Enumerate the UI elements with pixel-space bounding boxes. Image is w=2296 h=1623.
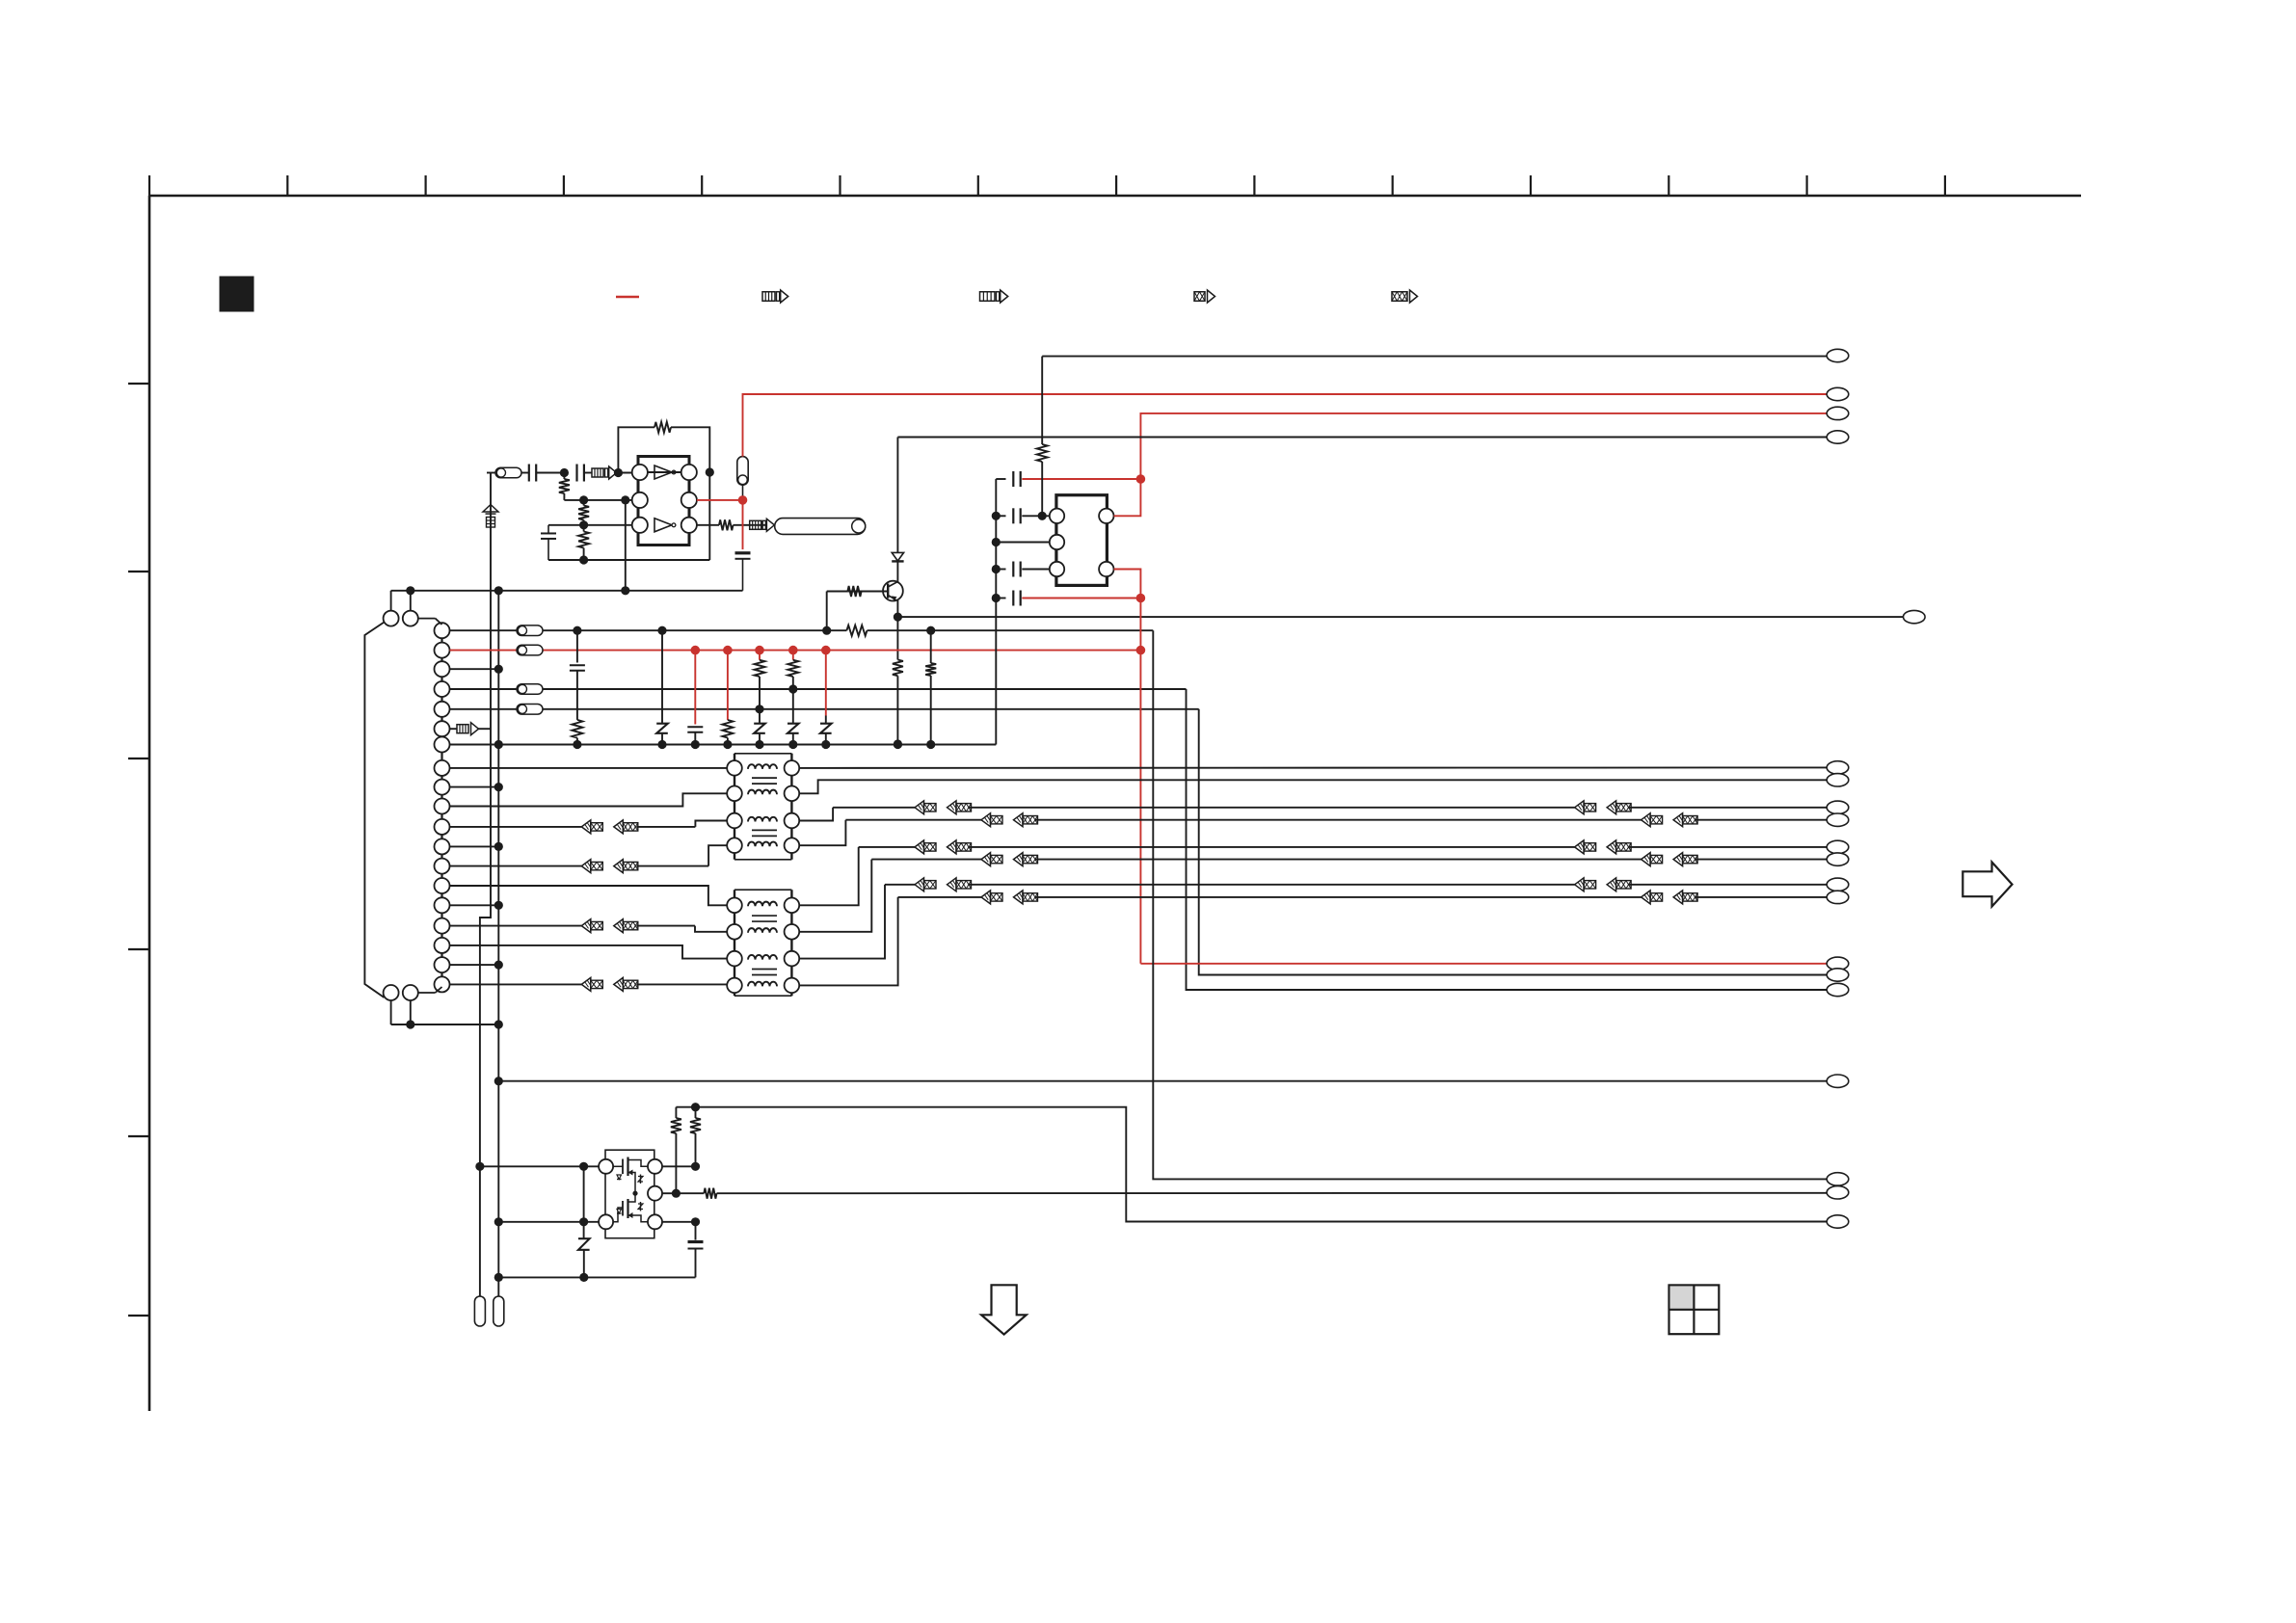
- signal arrows r6 right: [1642, 853, 1651, 866]
- connector CN1 pin chain: [441, 638, 442, 642]
- resistor R15: [675, 1107, 677, 1118]
- wire Q2 bottom row: [498, 1221, 599, 1223]
- inductor Z3: [583, 1166, 585, 1222]
- wire CN1-17 to T2 p3: [450, 945, 728, 959]
- wire feedback loop: [618, 427, 654, 472]
- wire CN1-16 to T2 p2: [450, 925, 582, 927]
- capacitor C7 shunt red: [694, 651, 696, 725]
- wire CN1-12 to bus: [450, 845, 499, 847]
- node feedback tap: [621, 495, 629, 504]
- wire CN1-9 to bus: [450, 786, 499, 788]
- resistor R17: [704, 1188, 716, 1199]
- wire red supply bus: [450, 650, 518, 652]
- node R15 bottom: [672, 1189, 681, 1198]
- signal arrows r7 right: [1575, 878, 1585, 891]
- wire bottom ground rail: [498, 1276, 695, 1278]
- delay line DL1: [775, 519, 866, 535]
- op-amp U1 amplifier B: [654, 519, 672, 532]
- wire T2 p1 to CN2 r5: [799, 847, 859, 905]
- node bus a: [406, 586, 414, 595]
- wire row CN1-5: [450, 708, 518, 710]
- wire T1 p1 to CN2 r1: [799, 766, 1827, 769]
- wire ground bus upper: [391, 590, 743, 592]
- node input junction: [560, 468, 569, 477]
- wire T2 p3 to CN2 r7: [799, 885, 885, 959]
- ferrite bead L1: [495, 467, 521, 478]
- bus arrow into U1: [592, 468, 603, 477]
- wire T1 p4 to CN2 r4: [799, 820, 845, 846]
- node R3 top: [579, 495, 588, 504]
- connector CN3-4: [1827, 431, 1849, 443]
- wire base net: [847, 591, 888, 593]
- wire CN1-6 arrow row: [450, 728, 458, 730]
- resistor R13 shunt: [930, 630, 932, 663]
- transformer T2: [734, 889, 791, 891]
- index mark (filled square): [220, 277, 254, 311]
- capacitor C6 shunt: [576, 630, 578, 662]
- wire CN1-15 to bus: [450, 904, 499, 906]
- ferrite bead L3: [517, 645, 543, 655]
- resistor R12 shunt: [792, 651, 794, 660]
- capacitor C11: [992, 594, 1001, 602]
- MOSFET array Q2 pins: [599, 1159, 613, 1174]
- legend arrow symbol 4: [1392, 290, 1418, 303]
- connector CN4-3: [1827, 983, 1849, 996]
- ferrite bead L2: [517, 625, 543, 636]
- wire Q2 source row right: [662, 1221, 696, 1223]
- legend arrow symbol 1: [762, 290, 788, 303]
- connector CN3-5: [1904, 610, 1926, 623]
- resistor R3: [578, 506, 589, 520]
- signal arrows r4 right: [1642, 813, 1651, 827]
- node R4 bottom: [579, 555, 588, 564]
- wire U2 pin2 row: [992, 538, 1001, 546]
- inductor Z2 shunt red: [825, 651, 827, 716]
- wire bus v517: [497, 591, 499, 1296]
- signal arrows r5 mid: [915, 840, 924, 854]
- connector CN2-7: [1827, 878, 1849, 891]
- wire emitter row to CN3-5: [897, 616, 1903, 618]
- node row4 tap: [755, 705, 763, 713]
- wire row CN1-4 drop to CN3: [1187, 689, 1828, 990]
- node gate rail: [691, 1103, 700, 1111]
- wire CN1-14 to T2 p1: [450, 886, 728, 905]
- resistor R5: [719, 519, 734, 530]
- connector CN5-3: [1827, 1186, 1849, 1199]
- wire U1 outB row: [697, 524, 719, 526]
- resistor R10 shunt red: [727, 651, 729, 720]
- wire red C5 down: [742, 500, 744, 549]
- signal arrows r7 mid: [915, 878, 924, 891]
- connector CN3-2: [1827, 387, 1849, 400]
- connector CN1 bottom pair: [384, 985, 399, 1000]
- node U1 output: [706, 467, 714, 476]
- connector CN2-8: [1827, 891, 1849, 903]
- connector pin P1: [474, 1296, 485, 1326]
- capacitor C1: [528, 465, 530, 482]
- legend arrow symbol 3: [1194, 290, 1215, 303]
- diode D1: [892, 552, 903, 561]
- signal arrows CN1-11: [581, 820, 591, 834]
- wire bus v509: [480, 473, 491, 1297]
- capacitor C8: [996, 478, 1005, 480]
- MOSFET Q2a: [613, 1165, 623, 1167]
- wire down to bus: [625, 500, 627, 591]
- signal arrows CN1-19: [581, 977, 591, 991]
- connector CN5-2: [1827, 1173, 1849, 1185]
- wire T2 p4 to CN2 r8: [799, 897, 897, 986]
- signal arrows r8 mid: [981, 891, 991, 904]
- diode D2a: [617, 1175, 622, 1180]
- node R16 bottom: [691, 1162, 700, 1171]
- node red a: [1136, 474, 1146, 484]
- wire inverting row: [564, 499, 631, 501]
- connector CN4-2: [1827, 969, 1849, 981]
- wire row CN1-1: [450, 629, 518, 631]
- wire CN1-8 to T1 p1: [450, 767, 728, 769]
- page link arrow down: [981, 1285, 1027, 1334]
- wire Q2 mid row to CN5-3: [662, 1192, 676, 1194]
- bus arrow out of U1: [750, 520, 761, 529]
- node R14 bottom: [1038, 512, 1047, 520]
- op-amp U1 amplifier A: [654, 466, 672, 479]
- signal arrows CN1-13: [581, 860, 591, 873]
- signal arrows r3 mid: [915, 801, 924, 814]
- wire row CN1-5 drop to CN3: [1199, 709, 1827, 975]
- zener Z2b: [640, 1202, 642, 1211]
- resistor R7: [893, 660, 903, 677]
- node red C5: [738, 495, 748, 505]
- node row1 b: [657, 626, 666, 635]
- diode D2b: [617, 1210, 622, 1214]
- wire red main drop: [1139, 599, 1141, 964]
- wire row1 drop to CN4: [1153, 630, 1827, 1179]
- wire T2 p2 to CN2 r6: [799, 860, 871, 932]
- wire bottom loop: [548, 559, 709, 561]
- wire cap bus v1033: [995, 479, 997, 745]
- connector CN1 top stems: [390, 591, 392, 611]
- wire red U2 out2: [1114, 570, 1141, 599]
- resistor R1 feedback: [654, 422, 671, 433]
- resistor R6 base: [847, 586, 861, 597]
- bus arrow CN1-6: [457, 725, 468, 733]
- transistor Q1: [883, 581, 903, 601]
- connector CN2-3: [1827, 801, 1849, 813]
- node bus b: [494, 586, 503, 595]
- connector CN2-4: [1827, 813, 1849, 826]
- node row1 a: [573, 626, 581, 635]
- ground arrow symbol: [483, 505, 498, 513]
- connector CN2-5: [1827, 840, 1849, 853]
- wire to CN3-1: [1042, 356, 1827, 358]
- wire top rail to CN5-1: [498, 1080, 1827, 1082]
- capacitor C4 electrolytic: [737, 457, 748, 486]
- wire amp B input row: [548, 524, 632, 526]
- signal arrows r5 right: [1575, 840, 1585, 854]
- connector CN1 top pair: [418, 618, 436, 620]
- capacitor C9: [992, 512, 1001, 520]
- connector pin P2: [494, 1296, 504, 1326]
- wire Q2 top drain row: [662, 1165, 696, 1167]
- resistor R9 shunt: [572, 720, 582, 738]
- connector CN2-2: [1827, 774, 1849, 786]
- wire collector net: [896, 438, 898, 553]
- wire red U1 outA to C5: [697, 499, 743, 501]
- legend arrow symbol 2: [980, 290, 1008, 303]
- resistor R8: [846, 625, 867, 636]
- capacitor C5: [735, 551, 751, 554]
- op-amp U1 pins: [632, 465, 648, 480]
- op-amp U1 body: [638, 457, 689, 545]
- node Z3 ground: [579, 1273, 588, 1282]
- connector CN1 pins: [435, 623, 450, 638]
- transformer T1: [734, 753, 791, 755]
- wire CN1-10 to T1 p2: [450, 793, 728, 806]
- signal arrows CN1-16: [581, 919, 591, 933]
- connector CN5-1: [1827, 1075, 1849, 1087]
- connector CN2-6: [1827, 853, 1849, 865]
- node R4 top: [579, 520, 588, 529]
- wire red to CN3-3: [1140, 413, 1827, 479]
- node red b: [1136, 594, 1146, 603]
- node R7 ground: [894, 739, 902, 748]
- resistor R16: [695, 1107, 697, 1118]
- signal arrows r4 mid: [981, 813, 991, 827]
- node bus c: [621, 586, 629, 595]
- legend red wire sample: [616, 296, 639, 298]
- wire red U2 out1: [1114, 479, 1141, 516]
- resistor R4: [578, 532, 589, 548]
- signal arrows r8 right: [1642, 891, 1651, 904]
- wire to CN3-4: [897, 437, 1827, 439]
- node red bus end: [1136, 646, 1146, 655]
- connector CN1 frame: [364, 623, 384, 998]
- wire CN1-18 to bus: [450, 964, 499, 966]
- connector CN3-3: [1827, 407, 1849, 419]
- node row3 tap: [788, 684, 797, 693]
- resistor R2: [559, 479, 570, 493]
- signal arrows r3 right: [1575, 801, 1585, 814]
- signal arrows r6 mid: [981, 853, 991, 866]
- MOSFET array Q2 body: [605, 1150, 654, 1238]
- wire gate rail: [676, 1107, 1827, 1222]
- MOSFET Q2b: [613, 1208, 623, 1222]
- page locator grid: [1669, 1285, 1720, 1334]
- connector CN4-1: [1827, 957, 1849, 970]
- capacitor C2: [575, 465, 577, 482]
- resistor R11 shunt: [759, 651, 761, 660]
- ferrite bead L5: [517, 705, 543, 715]
- connector CN3-1: [1827, 349, 1849, 361]
- wire Q2 gate row: [480, 1165, 599, 1167]
- connector CN2-1: [1827, 761, 1849, 774]
- connector CN5-4: [1827, 1215, 1849, 1228]
- wire red to CN3 low: [1140, 963, 1827, 965]
- resistor R14: [1041, 357, 1043, 444]
- wire red to CN3-2: [743, 394, 1828, 457]
- node U1 pin1 junction: [614, 468, 623, 477]
- wire ground bus: [450, 744, 997, 746]
- capacitor C3: [547, 525, 549, 533]
- capacitor C12: [695, 1222, 697, 1240]
- wire emitter down: [896, 617, 898, 659]
- wire CN1-13 to T1 p4: [450, 865, 582, 867]
- connector CN1 bottom stems: [390, 1000, 392, 1024]
- zener Z2a: [640, 1175, 642, 1184]
- inductor Z1 shunt: [661, 630, 663, 722]
- wire row CN1-4: [450, 688, 518, 690]
- wire input row: [487, 472, 495, 474]
- wire T1 p2 to CN2 r2: [799, 780, 1827, 793]
- node row1 base tap: [822, 626, 831, 635]
- node row1 c: [926, 626, 935, 635]
- ferrite bead L4: [517, 684, 543, 695]
- capacitor C10: [992, 565, 1001, 573]
- wire CN1-19 to T2 p4: [450, 983, 582, 985]
- wire CN1-3 to bus: [450, 668, 499, 670]
- node emitter junction: [894, 613, 902, 622]
- IC U2 body: [1056, 495, 1108, 586]
- wire frame bottom rail: [391, 1024, 499, 1025]
- IC U2 pins: [1050, 509, 1064, 523]
- page link arrow right: [1962, 863, 2012, 907]
- wire CN1-11 to T1 p3: [450, 826, 582, 828]
- wire T1 p3 to CN2 r3: [799, 808, 833, 821]
